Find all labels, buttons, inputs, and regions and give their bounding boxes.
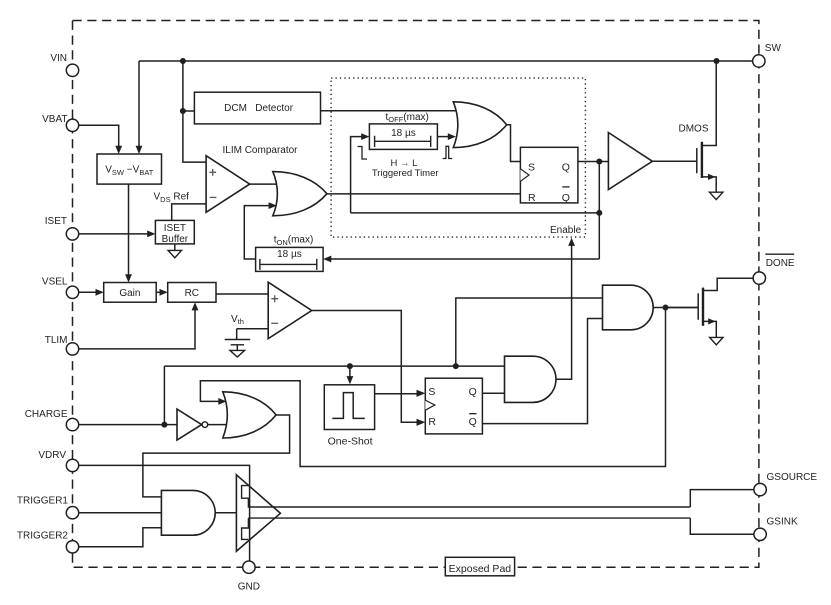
svg-text:Exposed Pad: Exposed Pad bbox=[449, 563, 512, 575]
svg-text:18 µs: 18 µs bbox=[391, 128, 416, 139]
svg-text:GSOURCE: GSOURCE bbox=[767, 472, 818, 483]
svg-text:Q: Q bbox=[469, 416, 477, 428]
svg-text:Triggered Timer: Triggered Timer bbox=[372, 168, 439, 179]
svg-text:Gain: Gain bbox=[119, 288, 140, 299]
svg-text:TRIGGER1: TRIGGER1 bbox=[17, 496, 69, 507]
svg-text:S: S bbox=[428, 386, 435, 398]
svg-text:RC: RC bbox=[185, 288, 199, 299]
svg-text:S: S bbox=[528, 161, 535, 173]
svg-text:DCM Detector: DCM Detector bbox=[224, 103, 294, 114]
svg-text:R: R bbox=[528, 192, 536, 204]
svg-text:Q: Q bbox=[469, 386, 477, 398]
svg-text:VBAT: VBAT bbox=[42, 114, 67, 125]
svg-text:ILIM Comparator: ILIM Comparator bbox=[222, 145, 298, 156]
svg-text:18 µs: 18 µs bbox=[277, 249, 302, 260]
svg-text:DMOS: DMOS bbox=[679, 124, 709, 135]
svg-text:Q: Q bbox=[562, 192, 570, 204]
svg-text:GSINK: GSINK bbox=[767, 517, 798, 528]
svg-text:DONE: DONE bbox=[766, 258, 795, 269]
svg-text:TRIGGER2: TRIGGER2 bbox=[17, 530, 69, 541]
svg-text:TLIM: TLIM bbox=[45, 335, 68, 346]
svg-text:VDRV: VDRV bbox=[38, 450, 66, 461]
svg-text:Enable: Enable bbox=[550, 225, 582, 236]
svg-text:GND: GND bbox=[238, 582, 260, 593]
svg-text:VDS Ref: VDS Ref bbox=[154, 191, 190, 203]
svg-text:VSEL: VSEL bbox=[42, 277, 68, 288]
svg-text:ISET: ISET bbox=[45, 216, 67, 227]
svg-text:CHARGE: CHARGE bbox=[25, 409, 68, 420]
svg-text:Q: Q bbox=[562, 161, 570, 173]
svg-text:One-Shot: One-Shot bbox=[328, 436, 373, 448]
svg-text:ISET: ISET bbox=[164, 223, 186, 234]
svg-text:R: R bbox=[428, 416, 436, 428]
svg-text:VIN: VIN bbox=[50, 53, 67, 64]
svg-text:SW: SW bbox=[765, 43, 782, 54]
svg-text:Buffer: Buffer bbox=[162, 234, 189, 245]
